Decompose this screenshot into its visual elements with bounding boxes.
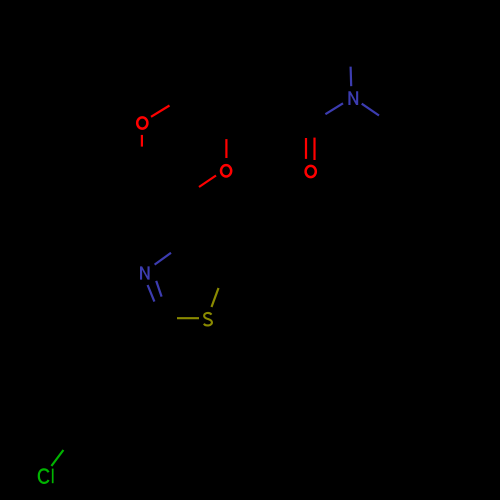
atom S (thiazole): [177, 288, 219, 325]
atom O1 (dioxane left): [137, 106, 169, 147]
bond O4-C3 red half: [225, 139, 227, 158]
label S thiazole: [204, 313, 212, 326]
label N amide: [348, 91, 358, 105]
atom O4 (dioxane right): [199, 139, 231, 187]
C=O double bond red halves: [305, 138, 307, 159]
label O carbonyl: [306, 166, 316, 177]
bond S-C2 yellow half: [177, 317, 199, 319]
label Cl : C: [39, 469, 49, 483]
bond N-CH3 blue half: [350, 67, 353, 87]
label Cl : l: [52, 469, 54, 484]
label O4: [221, 165, 231, 176]
atom O (carbonyl): [306, 138, 316, 178]
bond N-C4 blue half: [155, 253, 171, 265]
atom N (thiazole): [140, 253, 171, 302]
bond O1-C6 red half: [141, 135, 143, 147]
atom Cl: [39, 450, 64, 483]
bond Cl-C green half: [51, 450, 63, 466]
bond S-C5 yellow half: [212, 288, 219, 307]
bond N=C2 double blue halves: [148, 285, 155, 302]
atom N (amide): [325, 67, 379, 116]
bond N-C(=O) blue half: [325, 103, 343, 114]
bond N-CH(ring) blue half: [362, 104, 379, 116]
bond O4-C5 red half: [199, 176, 216, 188]
wire: carbon skeleton (black on black, invisible): [63, 88, 430, 450]
bond O1-C2 red half: [151, 106, 170, 117]
label O1: [137, 117, 147, 128]
label N thiazole: [140, 266, 150, 279]
